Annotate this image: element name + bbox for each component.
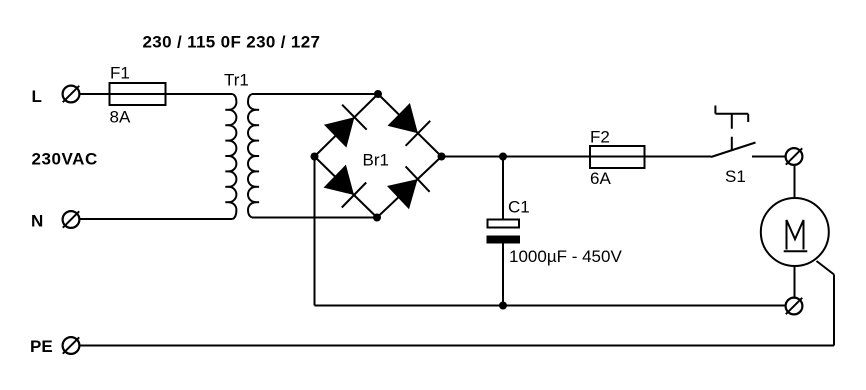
svg-text:Br1: Br1 [363, 151, 389, 170]
Br1 diode D-topright (T node to R node) [388, 103, 431, 146]
wire PE bus [80, 345, 835, 347]
switch S1 actuator stem (dashed) [731, 114, 733, 150]
svg-text:Tr1: Tr1 [224, 71, 249, 90]
switch S1 fixed contact wire [752, 156, 786, 158]
svg-text:L: L [32, 87, 42, 106]
Br1 diode D-topleft (L node to T node) [324, 105, 367, 148]
wire N to transformer primary bottom [80, 218, 233, 220]
transformer Tr1 secondary winding [248, 94, 256, 218]
svg-text:PE: PE [30, 337, 53, 356]
svg-text:8A: 8A [110, 108, 131, 127]
transformer Tr1 primary cusp ticks [225, 110, 229, 202]
svg-text:6A: 6A [590, 169, 611, 188]
junction dot bridge left node [311, 153, 319, 161]
capacitor C1 top lead wire [502, 157, 504, 220]
wire L to transformer primary (through F1) [80, 93, 233, 95]
wire bottom bus [315, 305, 786, 307]
svg-text:230 / 115 0F 230 / 127: 230 / 115 0F 230 / 127 [143, 33, 321, 52]
switch S1 actuator right tick [747, 114, 749, 122]
wire PE riser [833, 275, 835, 346]
svg-text:N: N [31, 212, 43, 231]
motor M letter [787, 220, 804, 250]
motor M underline [784, 250, 808, 252]
wire secondary bottom to bridge bottom node [252, 217, 377, 219]
junction dot C1 bottom on bus [499, 302, 507, 310]
terminal motor bottom [786, 298, 803, 315]
transformer Tr1 primary winding [229, 94, 237, 219]
terminal switch output [786, 148, 803, 165]
capacitor C1 top plate [488, 220, 520, 228]
switch S1 actuator bar [715, 113, 748, 115]
capacitor C1 bottom lead wire [502, 244, 504, 306]
terminal PE [63, 337, 80, 354]
svg-text:230VAC: 230VAC [32, 149, 98, 168]
svg-text:F2: F2 [590, 127, 610, 146]
svg-text:C1: C1 [508, 198, 530, 217]
svg-text:1000µF - 450V: 1000µF - 450V [509, 247, 622, 266]
svg-text:S1: S1 [725, 167, 746, 186]
wire bridge left node down to bottom bus [314, 157, 316, 306]
wire PE diagonal to motor frame [817, 261, 835, 275]
Br1 diode D-bottomleft (L node to B node) [324, 165, 367, 208]
fuse F2 [590, 146, 645, 168]
junction dot bridge top node [374, 90, 382, 98]
wire switch terminal to motor [794, 166, 796, 199]
bridge rectifier Br1 diamond edges [315, 94, 442, 218]
switch S1 blade [711, 143, 756, 158]
motor M1 body circle [761, 198, 829, 266]
junction dot bridge right node [438, 153, 446, 161]
svg-text:F1: F1 [110, 63, 130, 82]
transformer Tr1 secondary cusp ticks [255, 110, 259, 202]
junction dot DC+ at C1 top [499, 153, 507, 161]
Br1 diode D-bottomright (B node to R node) [387, 166, 430, 209]
wire secondary top to bridge top node [252, 93, 378, 95]
junction dot bridge bottom node [373, 214, 381, 222]
terminal N [63, 211, 80, 228]
wire motor bottom to terminal [794, 266, 796, 298]
wire bridge right node to switch (through F2) [442, 156, 712, 158]
capacitor C1 bottom plate [487, 236, 521, 244]
fuse F1 [110, 83, 166, 105]
terminal L [63, 86, 80, 103]
switch S1 actuator left tick [714, 106, 716, 114]
